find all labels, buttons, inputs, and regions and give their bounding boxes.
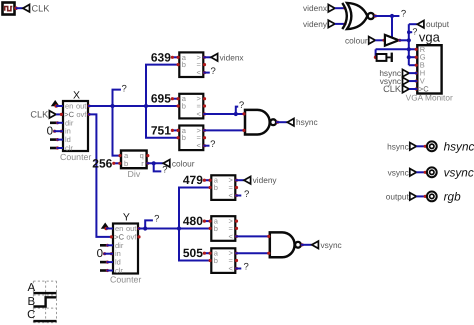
- wire Y bus down to 505.b: [179, 229, 211, 261]
- svg-text:videnx: videnx: [303, 3, 328, 13]
- wire tunnel to output rgb: [416, 195, 426, 198]
- button B1: [374, 53, 393, 62]
- NAND gate hsync: [242, 110, 279, 135]
- tunnel videny (from 479.gt): [244, 175, 277, 185]
- XNOR gate U1: [342, 3, 374, 29]
- wire CLK tunnel to X.C: [56, 113, 63, 116]
- comparator CMP695: [179, 94, 203, 119]
- wire ground to X.clr: [57, 147, 64, 149]
- svg-text:?: ?: [412, 27, 417, 37]
- svg-text:695: 695: [151, 92, 171, 106]
- data graph trace A: [33, 292, 56, 294]
- wire G row bus to VGA.G: [409, 56, 418, 58]
- dot 751.b from bus: [177, 136, 180, 139]
- wire ground to Y.clr: [107, 270, 114, 272]
- stub with ? on 751.lt: [203, 139, 216, 150]
- wire VDD to X.en: [56, 105, 63, 107]
- tunnel hsync (from NAND): [287, 117, 317, 127]
- svg-text:vsync: vsync: [321, 240, 342, 250]
- wire videnx to XNOR.in1: [335, 7, 347, 10]
- svg-text:?: ?: [122, 84, 127, 95]
- value label 256 (constant) on Div.b: [92, 156, 121, 170]
- svg-text:output: output: [426, 19, 450, 29]
- tunnel colour into driver: [345, 35, 375, 45]
- svg-text:hsync: hsync: [387, 141, 409, 151]
- comparator CMP479: [211, 175, 235, 200]
- svg-text:CLK: CLK: [383, 84, 402, 94]
- wire ground to X.ld: [57, 139, 64, 141]
- svg-text:vga: vga: [419, 29, 441, 44]
- junction with ? stub on 695.lt wire: [234, 100, 244, 116]
- data graph label C: [27, 309, 35, 321]
- wire R row (button to VGA.R): [376, 49, 418, 56]
- svg-text:480: 480: [183, 214, 203, 228]
- junction on X bus at Div branch: [110, 104, 114, 108]
- svg-text:b: b: [182, 133, 186, 142]
- VGA Monitor U2 (vga): [406, 29, 453, 102]
- svg-text:colour: colour: [172, 158, 195, 168]
- junction bus / driver row: [407, 38, 411, 42]
- svg-text:Counter: Counter: [60, 152, 91, 162]
- wire 505.gt to NAND vsync input 2: [235, 252, 270, 255]
- svg-text:output: output: [386, 191, 410, 201]
- dot 505.eq unconnected: [235, 259, 238, 262]
- ground on Y.dir: [100, 244, 109, 247]
- junction bus / R row: [407, 47, 411, 51]
- tunnel CLK to X.C: [30, 109, 56, 119]
- dot 751.eq unconnected: [203, 136, 206, 139]
- svg-text:?: ?: [243, 262, 248, 273]
- value label 695 (constant) on CMP695.a: [151, 92, 180, 106]
- dot 695.eq unconnected: [203, 104, 206, 107]
- svg-text:ovf: ovf: [126, 232, 137, 241]
- svg-text:CLK: CLK: [32, 3, 51, 13]
- wire 479.gt to videny tunnel: [235, 179, 244, 182]
- svg-text:hsync: hsync: [296, 117, 318, 127]
- svg-text:751: 751: [151, 123, 171, 137]
- tunnel output (to net output): [417, 19, 449, 29]
- svg-text:b: b: [214, 256, 218, 265]
- tunnel vsync into output vsync: [388, 167, 417, 177]
- dot Div.q unconnected: [146, 154, 149, 157]
- svg-text:Div: Div: [128, 169, 141, 179]
- wire XNOR output down to driver output node: [391, 16, 393, 40]
- tunnel videnx into XNOR: [303, 3, 335, 13]
- NAND gate vsync: [267, 232, 304, 257]
- svg-text:<: <: [229, 191, 234, 200]
- tunnel vsync into VGA.V: [380, 76, 409, 86]
- dot 695.b from bus: [177, 104, 180, 107]
- dot Y.C input: [110, 235, 113, 238]
- wire NAND vsync output to tunnel: [301, 244, 312, 246]
- svg-text:b: b: [214, 224, 218, 233]
- data graph trace C: [33, 320, 56, 322]
- svg-text:?: ?: [401, 8, 406, 19]
- tunnel vsync (from NAND): [312, 240, 342, 250]
- data graph (test data) grid: [33, 281, 56, 323]
- svg-text:?: ?: [162, 165, 167, 176]
- svg-text:b: b: [182, 102, 186, 111]
- svg-text:ovf: ovf: [76, 110, 87, 119]
- wire X bus up to 639.b: [146, 65, 179, 106]
- dot 505.b from bus: [209, 259, 212, 262]
- junction on Y bus at stub: [143, 226, 147, 230]
- svg-text:<: <: [197, 141, 202, 150]
- tunnel videnx (from 639.gt): [211, 52, 244, 62]
- dot 695.gt unconnected: [203, 97, 206, 100]
- comparator CMP505: [211, 248, 235, 273]
- wire tunnel to output vsync: [416, 171, 426, 174]
- wire Div.r to colour tunnel: [146, 162, 163, 165]
- RGB bus vertical: [408, 24, 410, 65]
- svg-text:rgb: rgb: [444, 189, 461, 203]
- wire ground to Y.ld: [107, 261, 114, 263]
- wire X bus down to 751.b: [146, 106, 179, 138]
- wire Y.out bus to 480.b: [138, 228, 211, 230]
- counter Y (Counter): [110, 211, 141, 284]
- dot 480.b from bus: [209, 227, 212, 230]
- svg-text:b: b: [182, 60, 186, 69]
- tunnel CLK (net CLK, from clock): [23, 3, 50, 13]
- svg-text:hsync: hsync: [444, 139, 474, 153]
- svg-text:Y: Y: [123, 211, 130, 223]
- wire X.out bus to 695.b: [88, 105, 179, 107]
- wire B row bus to VGA.B: [409, 64, 418, 66]
- svg-text:C: C: [27, 309, 35, 321]
- value label 479 (constant) on CMP479.a: [183, 173, 212, 187]
- value label 751 (constant) on CMP751.a: [151, 123, 180, 137]
- VDD supply on Y.en: [101, 223, 110, 231]
- wire Y bus up to 479.b: [179, 188, 211, 229]
- clock component CLK source: [3, 3, 18, 15]
- wire tunnel to output hsync: [416, 145, 426, 148]
- svg-text:vsync: vsync: [388, 167, 409, 177]
- node stub with ? on X out bus: [113, 84, 127, 106]
- tunnel CLK into VGA.C: [383, 84, 409, 94]
- ground on X.ld: [50, 138, 59, 141]
- divider Div: [118, 151, 146, 180]
- wire colour tunnel to driver input: [375, 39, 385, 42]
- wire vsync tunnel to VGA.V: [409, 80, 417, 82]
- wire X.ovf to Y.C: [88, 114, 113, 236]
- svg-text:CLK: CLK: [30, 109, 49, 119]
- svg-text:<: <: [229, 232, 234, 241]
- wire constant 0 to Y.in: [104, 253, 113, 255]
- ground on X.dir: [50, 121, 59, 124]
- ground on Y.clr: [100, 269, 109, 272]
- junction bus / G row: [407, 55, 411, 59]
- VDD supply on X.en: [51, 100, 60, 108]
- wire videny to XNOR.in2: [335, 22, 347, 25]
- tunnel videny into XNOR: [303, 19, 335, 29]
- tunnel colour (from Div.r): [163, 158, 195, 168]
- dot 479.eq unconnected: [235, 186, 238, 189]
- svg-text:?: ?: [239, 100, 244, 111]
- tunnel output into output rgb: [386, 191, 417, 201]
- svg-text:<: <: [197, 110, 202, 119]
- dot 479.b: [209, 186, 212, 189]
- svg-text:clr: clr: [65, 144, 73, 153]
- svg-text:X: X: [73, 89, 80, 101]
- svg-text:0: 0: [97, 248, 103, 260]
- comparator CMP751: [179, 126, 203, 151]
- svg-text:639: 639: [151, 50, 171, 64]
- wire 480.lt to NAND vsync input 1: [235, 235, 270, 238]
- comparator CMP639: [179, 52, 203, 77]
- stub with ? on 639.lt: [203, 66, 216, 77]
- wire 695.lt to NAND hsync input 1: [203, 112, 245, 115]
- svg-text:?: ?: [244, 189, 249, 200]
- dot 639.eq unconnected: [203, 63, 206, 66]
- wire CLK tunnel to VGA.C: [409, 88, 417, 90]
- wire driver output to RGB bus: [399, 39, 409, 41]
- driver (buffer) D1: [385, 35, 402, 46]
- wire bus to output tunnel: [409, 23, 418, 25]
- wire ground to X.dir: [57, 122, 64, 124]
- dot 480.gt unconnected: [235, 220, 238, 223]
- svg-text:clr: clr: [115, 266, 123, 275]
- tunnel hsync into VGA.H: [379, 68, 409, 78]
- tunnel hsync into output hsync: [387, 141, 416, 151]
- svg-text:VGA Monitor: VGA Monitor: [406, 93, 453, 103]
- wire clock to CLK tunnel: [16, 7, 23, 9]
- svg-text:videnx: videnx: [220, 52, 245, 62]
- junction on X bus at 639 branch: [144, 104, 148, 108]
- ground on X.clr: [50, 146, 59, 149]
- wire hsync tunnel to VGA.H: [409, 72, 417, 74]
- svg-text:b: b: [124, 159, 128, 168]
- svg-text:?: ?: [154, 214, 159, 225]
- wire NAND hsync output to tunnel: [276, 121, 287, 123]
- output pin rgb: [427, 189, 461, 203]
- output pin vsync: [427, 165, 474, 179]
- wire 751.gt to NAND hsync input 2: [203, 129, 245, 132]
- stub with ? on RGB bus: [407, 27, 417, 37]
- data graph label A: [27, 282, 35, 294]
- svg-text:505: 505: [183, 246, 203, 260]
- wire constant 0 to X.in: [54, 130, 63, 132]
- data graph trace B: [33, 297, 56, 306]
- output pin hsync: [427, 139, 474, 153]
- counter X (Counter): [60, 89, 91, 162]
- svg-text:vsync: vsync: [444, 165, 474, 179]
- svg-text:?: ?: [211, 66, 216, 77]
- svg-text:b: b: [214, 183, 218, 192]
- node stub with ? on Y out bus: [145, 214, 159, 229]
- constant 0 on Y.in: [97, 248, 113, 260]
- stub with ? on 505.lt: [235, 262, 249, 273]
- junction on Y bus at 479/505 branch: [177, 226, 181, 230]
- stub with ? on Div.r: [154, 163, 168, 175]
- svg-text:<: <: [229, 264, 234, 273]
- svg-text:256: 256: [92, 156, 112, 170]
- svg-text:videny: videny: [253, 175, 278, 185]
- svg-text:Counter: Counter: [110, 274, 141, 284]
- svg-text:videny: videny: [303, 19, 328, 29]
- junction on XNOR output: [390, 14, 394, 18]
- wire XNOR output with ? end: [374, 8, 406, 19]
- comparator CMP480: [211, 216, 235, 241]
- constant 0 on X.in: [47, 126, 63, 138]
- svg-text:479: 479: [183, 173, 203, 187]
- wire X bus down to Div.a: [113, 106, 122, 156]
- dot 639.b: [177, 63, 180, 66]
- value label 505 (constant) on CMP505.a: [183, 246, 212, 260]
- wire 639.gt to videnx tunnel: [203, 56, 211, 59]
- svg-text:0: 0: [47, 126, 53, 138]
- junction on Div.r wire: [152, 161, 156, 165]
- ground on Y.ld: [100, 261, 109, 264]
- dot 480.eq unconnected: [235, 227, 238, 230]
- value label 639 (constant) on CMP639.a: [151, 50, 180, 64]
- data graph label B: [27, 296, 35, 308]
- wire VDD to Y.en: [106, 228, 113, 230]
- stub with ? on 479.lt: [235, 189, 249, 200]
- svg-text:?: ?: [210, 139, 215, 150]
- svg-text:<: <: [197, 68, 202, 77]
- wire ground to Y.dir: [107, 244, 114, 246]
- svg-text:colour: colour: [345, 35, 368, 45]
- value label 480 (constant) on CMP480.a: [183, 214, 212, 228]
